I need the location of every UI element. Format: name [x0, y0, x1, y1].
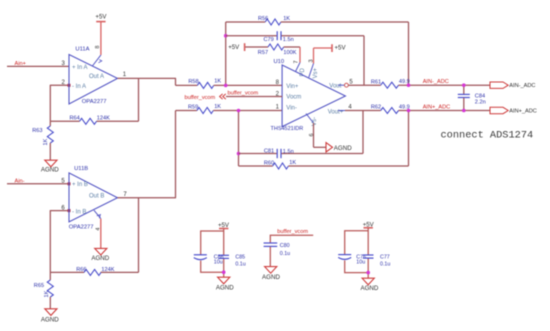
wire Vocm — [226, 96, 282, 98]
junction R61 feedback — [407, 83, 411, 87]
resistor R64 124K — [70, 116, 111, 125]
svg-text:AIN+_ADC: AIN+_ADC — [509, 108, 537, 114]
pin name Vout — [329, 84, 341, 90]
ground AGND group1 — [216, 277, 234, 291]
svg-text:8: 8 — [95, 46, 101, 49]
wire R59 to pin 1 — [213, 110, 282, 112]
pin number 1 — [123, 72, 127, 78]
resistor R61 49.9 — [371, 79, 410, 88]
wire C81 up to Vout+ row — [362, 111, 364, 154]
svg-text:R57: R57 — [258, 50, 268, 56]
pin name Out B — [89, 194, 104, 200]
label OPA2277 — [82, 99, 107, 105]
wire group3 branch — [345, 231, 369, 273]
power +5V group3 — [363, 222, 375, 229]
resistor R57 100K — [245, 44, 300, 56]
svg-text:124K: 124K — [97, 116, 110, 122]
svg-text:C80: C80 — [280, 243, 290, 249]
svg-text:R61: R61 — [371, 79, 381, 85]
junction group3 — [366, 271, 370, 275]
resistor R66 124K — [76, 267, 115, 275]
svg-text:Out A: Out A — [89, 74, 104, 80]
wire R58 to pin 8 — [214, 84, 282, 86]
ground AGND group3 — [360, 278, 378, 292]
svg-text:1K: 1K — [289, 160, 296, 166]
pin name + In A — [72, 65, 88, 71]
pin number 8 — [276, 80, 280, 86]
svg-text:Vin+: Vin+ — [286, 84, 299, 90]
wire R56 down to Vout- row — [408, 22, 410, 85]
capacitor C84 2.2n — [458, 85, 486, 110]
pin number 5 — [349, 79, 353, 85]
pin name - In A — [72, 84, 86, 90]
pin number 7 — [123, 192, 127, 198]
pin name Vout+ — [328, 109, 344, 115]
svg-text:AIN-_ADC: AIN-_ADC — [423, 79, 449, 85]
capacitor C85 0.1u — [218, 254, 245, 267]
pin number 2 — [276, 92, 280, 98]
note connect ADS1274 — [441, 129, 534, 141]
svg-text:Ain-: Ain- — [15, 179, 25, 185]
wire Ain+ to pin 3 — [7, 65, 69, 67]
label U11B — [74, 166, 88, 172]
svg-text:+5V: +5V — [335, 45, 347, 52]
wire C79 down to Vout- row — [363, 36, 365, 85]
capacitor C86 10u polarized — [194, 254, 224, 265]
pin number 4 — [348, 104, 352, 110]
svg-text:Vin-: Vin- — [286, 105, 297, 111]
svg-text:AGND: AGND — [334, 145, 352, 152]
wire buffer_vcom stub — [270, 235, 313, 242]
wire feedback vertical to R64 — [138, 78, 140, 121]
wire group1 branch — [201, 231, 224, 272]
junction Vin+ node — [224, 84, 228, 88]
pin PD stub — [296, 63, 300, 72]
svg-text:AGND: AGND — [91, 255, 109, 262]
wire Out B row — [118, 197, 177, 199]
svg-text:- In B: - In B — [72, 209, 86, 215]
pin name Vin+ — [286, 84, 299, 90]
wire step down to Vin+ row — [175, 78, 177, 85]
svg-text:+ In B: + In B — [72, 182, 88, 188]
svg-text:1K: 1K — [214, 79, 221, 85]
wire pin2 down to R64 — [49, 85, 51, 122]
capacitor C81 1.5n — [239, 149, 364, 159]
wire pin6 down to R66 — [49, 210, 51, 272]
net label buffer_vcom left — [185, 95, 216, 101]
svg-text:7: 7 — [294, 60, 300, 63]
power pin 8 stub U11A — [92, 55, 101, 66]
svg-text:U11B: U11B — [74, 166, 88, 172]
svg-text:R58: R58 — [188, 79, 198, 85]
svg-text:Ain+: Ain+ — [15, 61, 26, 67]
pin number 1 — [276, 105, 280, 111]
power +5V group1 — [218, 222, 230, 229]
svg-text:AIN+_ADC: AIN+_ADC — [423, 104, 451, 110]
svg-text:C79: C79 — [264, 37, 274, 43]
resistor R62 49.9 — [371, 104, 410, 113]
op-amp U10 — [282, 65, 345, 127]
resistor R63 1K vertical — [32, 121, 53, 160]
wire C80 down — [269, 247, 271, 267]
pin number 3 — [62, 61, 66, 67]
svg-text:OPA2277: OPA2277 — [82, 99, 107, 105]
pin number 4 rotated — [96, 228, 102, 231]
label THS4521IDR — [271, 126, 304, 132]
svg-text:buffer_vcom: buffer_vcom — [228, 90, 259, 96]
capacitor C79 1.5n — [226, 31, 364, 43]
pin name Out A — [89, 74, 104, 80]
junction C84 bottom — [462, 109, 466, 113]
resistor R59 1K (Vin- input) — [176, 104, 222, 113]
svg-text:C84: C84 — [475, 93, 485, 99]
resistor R60 1K (bottom feedback) — [239, 160, 409, 169]
pin Vs+ stub — [309, 64, 314, 78]
svg-text:THS4521IDR: THS4521IDR — [271, 126, 304, 132]
pin Vout+ stub — [338, 110, 345, 112]
port chevron buffer_vcom — [220, 94, 226, 99]
svg-text:AIN-_ADC: AIN-_ADC — [509, 83, 535, 89]
wire Ain- to pin 5 — [7, 183, 69, 185]
svg-text:AGND: AGND — [216, 284, 234, 291]
node Ain+ — [15, 61, 26, 67]
svg-text:AGND: AGND — [262, 274, 280, 281]
svg-text:10u: 10u — [214, 259, 223, 265]
wire Vout+ row — [345, 110, 381, 112]
svg-text:AGND: AGND — [41, 167, 59, 174]
junction pin 6 — [68, 209, 71, 212]
svg-text:1.5n: 1.5n — [283, 37, 294, 43]
ground AGND R65 — [41, 309, 59, 324]
svg-text:buffer_vcom: buffer_vcom — [277, 229, 308, 235]
svg-text:0.1u: 0.1u — [235, 262, 245, 268]
wire pin 6 stub — [50, 210, 69, 212]
pin number 2 — [62, 80, 66, 86]
node Ain- — [15, 179, 25, 185]
svg-text:Vout: Vout — [329, 84, 341, 90]
wire Vs+ vertical — [313, 48, 315, 64]
pin number 3 rotated — [308, 59, 314, 62]
net label buffer_vcom right — [228, 90, 259, 96]
label U10 — [274, 59, 285, 65]
svg-text:connect ADS1274: connect ADS1274 — [441, 129, 534, 141]
capacitor C80 0.1u — [264, 243, 291, 257]
svg-text:0.1u: 0.1u — [280, 251, 290, 257]
svg-text:R56: R56 — [258, 16, 268, 22]
wire group1 main vertical — [223, 229, 225, 278]
svg-text:Vocm: Vocm — [286, 95, 301, 101]
svg-text:R66: R66 — [76, 267, 86, 273]
svg-text:10u: 10u — [356, 259, 365, 265]
ground AGND port Vs- — [326, 143, 352, 152]
svg-text:R65: R65 — [34, 283, 44, 289]
wire R61 to port — [399, 84, 491, 86]
capacitor C76 10u polarized — [338, 254, 366, 265]
svg-text:Vs+: Vs+ — [313, 67, 319, 78]
ground AGND group2 — [262, 267, 280, 281]
power pin 4 stub U11B — [94, 210, 101, 218]
svg-text:1K: 1K — [44, 290, 50, 297]
wire feedback vertical to R66 — [138, 198, 140, 273]
pin number 6 — [61, 206, 65, 212]
pin Vs- stub — [306, 114, 314, 124]
svg-text:3: 3 — [308, 59, 314, 62]
net label AIN+_ADC — [423, 104, 451, 110]
wire R62 to port — [399, 110, 491, 112]
wire group3 main vertical — [367, 228, 369, 278]
svg-text:- In A: - In A — [72, 84, 86, 90]
svg-text:1K: 1K — [43, 138, 49, 145]
wire pin 2 stub — [50, 84, 69, 86]
label OPA2277 — [69, 225, 94, 231]
svg-text:R63: R63 — [32, 128, 42, 134]
wire R57 down to PD pin — [299, 47, 301, 63]
svg-text:1K: 1K — [214, 104, 221, 110]
junction group1 — [222, 270, 226, 274]
svg-text:U11A: U11A — [75, 46, 89, 52]
pin number 6 rotated — [309, 133, 315, 136]
svg-text:1.5n: 1.5n — [283, 149, 294, 155]
svg-text:0.1u: 0.1u — [380, 261, 390, 267]
junction C84 top — [462, 83, 466, 87]
op-amp U11A — [69, 55, 118, 105]
pin name + In B — [72, 182, 88, 188]
pin name PD rotated — [300, 67, 306, 76]
svg-text:C77: C77 — [380, 254, 390, 260]
pin number 7 rotated — [294, 60, 300, 63]
resistor R58 1K (Vin+ input) — [176, 79, 222, 89]
junction R62 feedback — [407, 109, 411, 113]
net label buffer_vcom group2 — [277, 229, 308, 235]
junction pin 5 — [68, 182, 71, 185]
port AIN-_ADC — [490, 82, 535, 89]
power +5V Vs+ arm — [314, 44, 347, 52]
pin number 5 — [61, 179, 65, 185]
svg-text:R59: R59 — [188, 104, 198, 110]
svg-text:1K: 1K — [283, 16, 290, 22]
pin name Vs- rotated — [312, 117, 318, 126]
pin Vout- stub and bubble — [338, 83, 348, 87]
wire Vin- node vertical — [238, 111, 240, 167]
svg-text:OPA2277: OPA2277 — [69, 225, 94, 231]
junction C79 tap — [224, 34, 228, 38]
wire R66 row — [50, 271, 138, 273]
svg-text:124K: 124K — [101, 267, 114, 273]
capacitor C77 0.1u — [363, 254, 391, 267]
svg-text:R62: R62 — [371, 105, 381, 111]
pin number 8 rotated — [95, 46, 101, 49]
svg-text:+5V: +5V — [228, 44, 240, 51]
svg-text:AGND: AGND — [41, 317, 59, 324]
svg-text:C85: C85 — [235, 254, 245, 260]
svg-text:U10: U10 — [274, 59, 285, 65]
svg-text:buffer_vcom: buffer_vcom — [185, 95, 216, 101]
svg-text:C81: C81 — [264, 149, 274, 155]
junction pin 2 — [68, 84, 71, 87]
ground AGND U11B — [91, 248, 109, 261]
wire up to Vin- row — [175, 111, 177, 198]
svg-text:+ In A: + In A — [72, 65, 88, 71]
svg-text:R64: R64 — [70, 116, 80, 122]
port AIN+_ADC — [490, 107, 537, 114]
svg-text:Out B: Out B — [89, 194, 104, 200]
wire power pin down — [100, 219, 102, 249]
wire R60 up to Vout+ row — [408, 111, 410, 167]
op-amp U11B — [69, 173, 118, 222]
net label AIN-_ADC — [423, 79, 449, 85]
wire Out A row — [118, 77, 177, 79]
wire R64 row — [50, 120, 138, 122]
ground AGND R63 — [41, 160, 59, 173]
pin name Vocm — [286, 95, 301, 101]
svg-text:2.2n: 2.2n — [475, 100, 486, 106]
pin name Vs+ rotated — [313, 67, 319, 78]
power +5V U11A — [95, 14, 107, 55]
svg-text:100K: 100K — [283, 50, 296, 56]
svg-text:R60: R60 — [264, 160, 274, 166]
resistor R65 1K vertical — [34, 272, 54, 308]
svg-text:+5V: +5V — [95, 14, 107, 21]
power +5V R57 — [228, 43, 244, 51]
wire Vin+ node vertical — [225, 22, 227, 85]
svg-text:AGND: AGND — [360, 285, 378, 292]
wire Vout- row — [348, 84, 380, 86]
pin name Vin- — [286, 105, 297, 111]
label U11A — [75, 46, 89, 52]
pin name - In B — [72, 209, 86, 215]
wire Vs- down — [314, 123, 327, 147]
resistor R56 1K (top feedback) — [226, 16, 409, 25]
junction Vin- node — [237, 109, 241, 113]
junction C81 tap — [237, 152, 241, 156]
